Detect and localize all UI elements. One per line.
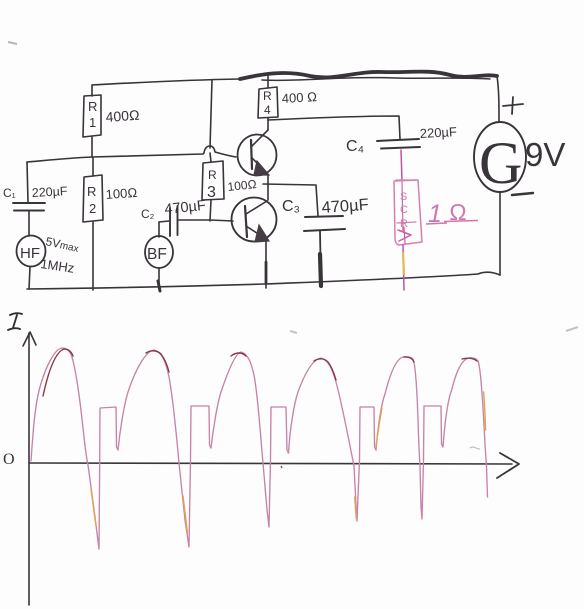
dark red overlays on waveform [43, 349, 477, 396]
svg-text:C₄: C₄ [346, 138, 364, 155]
wire C1 top lead [27, 162, 28, 202]
orange spike 1 [91, 489, 96, 526]
waveform cycle 5 [376, 357, 443, 519]
waveform cycle 1 [31, 348, 118, 549]
waveform cycle 2 [118, 350, 211, 547]
wire top bus thin section [92, 79, 240, 85]
label I on y axis [8, 313, 22, 330]
capacitor C1 plates [13, 203, 45, 211]
svg-text:2: 2 [89, 201, 96, 216]
wire BF top lead [158, 222, 160, 237]
svg-text:BF: BF [147, 246, 167, 263]
wire SCR to bottom bus (pink) [403, 245, 404, 290]
orange overlays on waveform spikes [91, 392, 486, 533]
SCR internal lead [402, 182, 403, 232]
svg-text:O: O [3, 451, 15, 468]
transistor Q1 emitter arrowhead [254, 161, 269, 175]
SCR letters (pink) [400, 191, 467, 230]
resistor R2 box [83, 175, 103, 222]
transistor Q2 emitter line [246, 226, 266, 239]
transistor Q2 collector line [246, 201, 267, 214]
wire R2 to bottom bus [92, 222, 94, 290]
transistor Q2 emitter arrowhead [255, 225, 269, 242]
svg-text:R: R [263, 89, 272, 103]
x axis arrowhead [497, 453, 519, 478]
svg-text:9V: 9V [525, 136, 565, 173]
wire R3 bottom lead [210, 200, 211, 221]
stray tick below x axis [281, 466, 282, 468]
x axis [29, 463, 512, 464]
battery G1 ellipse [474, 122, 526, 192]
dark overlay hump 2 [146, 351, 169, 372]
HF generator circle [17, 236, 46, 267]
svg-text:470µF: 470µF [321, 196, 369, 217]
svg-text:C: C [400, 204, 408, 216]
dark overlay hump 1 [43, 349, 73, 396]
wire R4 top stub [267, 74, 269, 88]
orange hump 5 rise [376, 408, 382, 446]
wire R1 to mid node [91, 137, 93, 157]
orange spike 2 [183, 496, 188, 533]
waveform trace (pink) [31, 348, 488, 549]
svg-text:R: R [208, 168, 217, 182]
dark overlay hump 4 [314, 359, 336, 380]
transistor Q2 circle [232, 198, 277, 242]
svg-text:C₂: C₂ [141, 207, 155, 221]
svg-text:400Ω: 400Ω [105, 107, 140, 125]
svg-text:400 Ω: 400 Ω [281, 89, 317, 106]
wire R4 node to C4 [268, 116, 400, 139]
svg-text:S: S [400, 191, 407, 203]
transistor Q2 base bar [245, 206, 247, 237]
stray smudge in graph [290, 331, 297, 333]
y axis [28, 333, 30, 605]
wire Q2 emitter to bottom bus [265, 240, 267, 288]
resistor R3 box [202, 161, 224, 200]
waveform cycle 4 [289, 358, 377, 521]
wire top bus thick wavy section [240, 72, 497, 79]
SCR box [394, 180, 422, 245]
wire BF to C2 [159, 221, 169, 222]
wire C4 to SCR (pink) [401, 150, 402, 181]
dark overlay hump 3 [231, 353, 246, 356]
svg-text:G: G [479, 130, 522, 196]
wire R2 top lead [92, 157, 94, 176]
wire battery positive lead [497, 76, 499, 121]
dark overlay hump 6 [462, 358, 477, 361]
y axis arrowhead [23, 332, 36, 346]
wire BF to bottom bus [158, 268, 160, 289]
wire C3 to bottom bus [320, 231, 321, 287]
wire mid rail with hop over R3 lead [27, 146, 236, 162]
BF generator circle [145, 236, 173, 268]
wire R3 top lead from top bus [210, 80, 212, 162]
capacitor C3 plates [304, 216, 345, 231]
svg-text:R: R [87, 184, 96, 199]
orange spike 4 [355, 497, 357, 519]
svg-text:3: 3 [207, 184, 216, 201]
svg-text:220µF: 220µF [419, 124, 457, 141]
wire C1 to HF generator [28, 211, 30, 236]
stray squiggle near arrow [470, 447, 480, 449]
wire bottom bus [27, 272, 500, 289]
dark overlay hump 5 [404, 357, 414, 362]
svg-text:HF: HF [20, 245, 40, 262]
svg-text:C₃: C₃ [282, 198, 300, 215]
wire C2 to Q2 base [178, 220, 233, 221]
svg-text:4: 4 [264, 103, 271, 117]
svg-text:R: R [400, 218, 408, 230]
wire R4 to Q1 collector [267, 118, 269, 130]
pink ink group: SCR and 1 ohm [394, 150, 422, 290]
svg-text:220µF: 220µF [31, 184, 68, 200]
transistor Q1 circle [238, 135, 277, 176]
wire Q1 emitter to Q2 collector junction [267, 175, 269, 200]
transistor Q1 emitter line [252, 158, 266, 172]
wire junction to C3 [263, 184, 318, 216]
orange hump 6 cliff [484, 392, 486, 430]
svg-text:C₁: C₁ [3, 186, 16, 200]
transistor Q1 base bar [251, 140, 252, 169]
waveform cycle 6 [443, 358, 488, 497]
underline of pink omega [426, 223, 447, 224]
wire HF to bottom bus [29, 267, 30, 289]
svg-text:100Ω: 100Ω [105, 185, 138, 202]
capacitor C4 plates [377, 139, 420, 149]
svg-text:1: 1 [89, 115, 96, 130]
svg-text:R: R [88, 99, 97, 114]
waveform cycle 3 [211, 352, 289, 527]
resistor R4 box [258, 87, 278, 118]
stray pencil smudge top left [8, 42, 17, 44]
plus sign battery [503, 97, 523, 114]
capacitor C2 plates [170, 206, 178, 236]
transistor Q1 collector line [252, 130, 268, 146]
wire R1 top stub [91, 85, 93, 96]
stray smudge right of graph [566, 327, 578, 331]
resistor R1 box [83, 95, 101, 137]
wire battery negative lead [499, 192, 501, 275]
minus sign battery [512, 193, 533, 195]
orange highlight on SCR lead [403, 252, 404, 275]
SCR cathode chevron [398, 230, 411, 241]
